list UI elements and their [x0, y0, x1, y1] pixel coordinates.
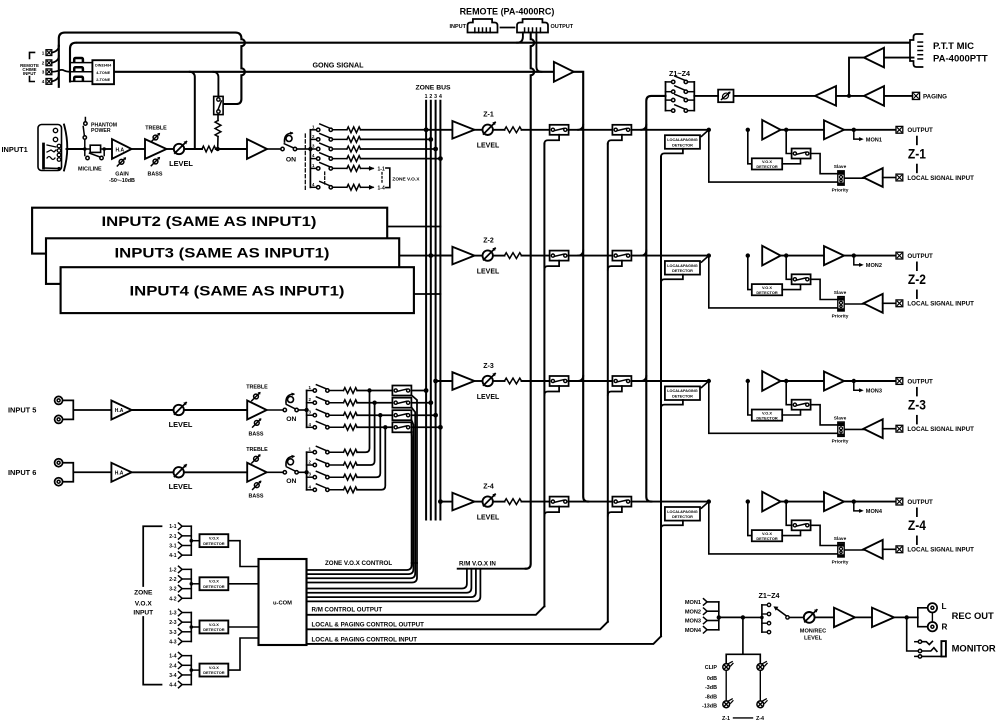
block INPUT3: [46, 238, 399, 284]
wire between jacks: [931, 613, 933, 622]
op-amp local in z2: [864, 294, 883, 313]
wire amp1 out z4: [781, 499, 824, 503]
wire swbox out z2: [811, 279, 838, 299]
op-amp monitor 1: [834, 608, 855, 627]
wire control vert col3: [660, 157, 662, 637]
svg-text:3-1: 3-1: [169, 544, 176, 550]
remote chime input bracket: [30, 52, 35, 81]
label R/M VOX IN: [459, 561, 496, 568]
wire rec out split: [918, 608, 927, 627]
detector local&paging z1: [665, 135, 700, 149]
label PHANTOM POWER: [91, 122, 117, 133]
svg-text:-3dB: -3dB: [705, 685, 717, 691]
svg-text:Z1~Z4: Z1~Z4: [759, 591, 780, 600]
svg-text:Priority: Priority: [832, 188, 849, 194]
svg-text:3: 3: [42, 70, 45, 75]
op-amp local in z1: [864, 168, 883, 187]
svg-text:MON1: MON1: [866, 137, 882, 143]
wire input2 to bus: [387, 226, 440, 228]
wire box2 ctrl z4: [608, 507, 622, 516]
wire r/m vox line: [458, 568, 526, 570]
svg-text:MON2: MON2: [685, 609, 701, 615]
svg-text:INPUT 5: INPUT 5: [8, 406, 36, 415]
label L&P CONTROL OUTPUT: [312, 621, 425, 628]
wire level to mix: [184, 148, 202, 150]
wire remote pin1: [517, 33, 523, 43]
op-amp H.A 6: [111, 463, 131, 482]
svg-text:H.A: H.A: [115, 408, 124, 414]
svg-text:LEVEL: LEVEL: [169, 420, 193, 429]
label LEVEL 6: [169, 482, 193, 491]
svg-text:4-1: 4-1: [169, 553, 176, 559]
label Priority z1: [832, 188, 849, 194]
label OUTPUT remote: [551, 24, 574, 30]
block u-COM: [259, 559, 307, 645]
svg-text:LOCAL & PAGING CONTROL INPUT: LOCAL & PAGING CONTROL INPUT: [312, 636, 418, 643]
wire l&p control input: [307, 636, 662, 644]
svg-text:DETECTOR: DETECTOR: [203, 627, 225, 632]
wire det1 out: [228, 541, 258, 567]
op-amp z2 out1: [762, 246, 780, 266]
wire remote pin2 (R/M line): [526, 33, 535, 569]
wire chime trigger bus: [58, 46, 60, 87]
wire det4 out: [228, 638, 258, 670]
wire amp1 out z3: [781, 379, 824, 383]
detector vox z1: [752, 158, 782, 169]
svg-text:R/M V.O.X IN: R/M V.O.X IN: [459, 561, 496, 568]
wire amp2-out mon: [894, 615, 918, 619]
wire local line z4: [709, 502, 838, 554]
wire ptt to amp: [884, 57, 914, 59]
wire r/m vox drop 2: [307, 569, 472, 593]
wire mon tap z2: [852, 253, 864, 266]
label LEVEL z4: [477, 514, 500, 521]
terminal output z4: [896, 498, 903, 505]
relay box1 z3: [550, 376, 569, 386]
svg-text:Slave: Slave: [834, 164, 847, 170]
svg-text:LOCAL SIGNAL INPUT: LOCAL SIGNAL INPUT: [907, 301, 974, 308]
label INPUT1: [2, 145, 28, 154]
svg-text:4-TONE: 4-TONE: [96, 71, 110, 75]
svg-text:CLIP: CLIP: [705, 665, 718, 671]
wire det2 out: [228, 583, 258, 585]
svg-text:2: 2: [429, 94, 432, 100]
wire z1-z4 clip: [734, 717, 753, 719]
led clip z4 bottom: [757, 699, 767, 708]
svg-text:Z-4: Z-4: [756, 716, 764, 722]
relay box2 z2: [612, 251, 631, 261]
switch bank Z1~Z4 paging: [666, 76, 695, 112]
pot level z4: [483, 494, 496, 507]
jack rec out L: [928, 603, 937, 612]
svg-text:LOCAL SIGNAL INPUT: LOCAL SIGNAL INPUT: [907, 547, 974, 554]
svg-text:LEVEL: LEVEL: [477, 268, 500, 275]
svg-text:P.T.T MIC: P.T.T MIC: [933, 41, 974, 52]
wire fillet page1: [578, 376, 583, 381]
selector slave/priority z1: [838, 171, 844, 185]
svg-text:BASS: BASS: [249, 431, 264, 437]
svg-text:LEVEL: LEVEL: [169, 159, 193, 168]
op-amp z4 out2: [824, 492, 844, 511]
wire chime trigger top line: [59, 33, 245, 104]
label Z-2 pot: [483, 237, 494, 244]
label P.T.T MIC: [933, 41, 988, 65]
switch row input1-1 to bus1: [310, 124, 426, 133]
label INPUT 5: [8, 406, 36, 415]
mute glyph input1: [284, 132, 293, 143]
svg-text:-50~-10dB: -50~-10dB: [109, 178, 135, 184]
node ptt/paging junction: [836, 94, 864, 98]
label GONG SIGNAL: [312, 60, 364, 69]
op-amp gong: [554, 62, 574, 82]
adjuster bass 6: [253, 481, 262, 490]
switch row input5-4: [307, 422, 393, 431]
node 6 dist: [304, 452, 308, 490]
label BASS 6: [249, 494, 264, 500]
svg-text:DETECTOR: DETECTOR: [672, 269, 693, 273]
bus line 4: [439, 101, 441, 520]
mute glyph 5: [286, 393, 295, 404]
node pad out: [85, 147, 106, 151]
svg-text:4-2: 4-2: [169, 596, 176, 602]
pot level z1: [483, 122, 496, 135]
bus line 2: [430, 101, 432, 520]
wire mon2 in: [708, 610, 719, 612]
wire gong signal line: [115, 71, 554, 73]
label MON4: [866, 509, 883, 515]
svg-text:-13dB: -13dB: [702, 704, 717, 710]
op-amp zone Z-4: [452, 493, 474, 511]
resistor z1: [505, 127, 522, 133]
wire box2 to bus2: [411, 400, 433, 405]
op-amp tone 5: [247, 401, 267, 420]
wire amp1-swbox z4: [786, 502, 791, 526]
wire pot-amp: [815, 616, 834, 618]
relay box2 z4: [612, 497, 631, 507]
label OUTPUT z1: [907, 127, 933, 134]
svg-text:3-2: 3-2: [169, 587, 176, 593]
svg-text:LOCAL&PAGING: LOCAL&PAGING: [667, 138, 698, 142]
op-amp paging 1: [864, 86, 884, 106]
switch gong: [214, 96, 223, 114]
svg-text:LEVEL: LEVEL: [477, 394, 500, 401]
wire swbox out z3: [811, 405, 838, 425]
label LOCAL SIGNAL INPUT z3: [907, 426, 974, 433]
wire terminal 3 through: [52, 70, 70, 72]
label ZONE VOX CONTROL: [325, 560, 392, 567]
label Z-1 pot: [483, 112, 494, 119]
svg-text:OUTPUT: OUTPUT: [551, 24, 574, 30]
pot level 5: [174, 402, 187, 415]
terminal chime 2: [42, 60, 52, 66]
switch row input1-2 to bus2: [310, 134, 433, 143]
wire box1-box2 z4: [569, 501, 613, 503]
connector ptt mic: [910, 34, 923, 67]
relay box1 z4: [550, 497, 569, 507]
wire local line z2: [709, 256, 838, 308]
svg-text:1-4: 1-4: [378, 185, 385, 191]
label Priority z4: [832, 559, 849, 565]
jack rca 6 top: [55, 459, 63, 467]
chime generator box: [92, 60, 114, 84]
wire box2-junction z4: [631, 501, 708, 503]
wire res-box1 z2: [522, 255, 550, 257]
label MON1 in: [685, 599, 707, 606]
label LOCAL SIGNAL INPUT z1: [907, 175, 974, 182]
svg-text:4-4: 4-4: [169, 683, 176, 689]
svg-text:Z-3: Z-3: [908, 398, 926, 413]
wire pot-res z3: [493, 380, 505, 382]
svg-text:L: L: [942, 602, 947, 611]
wire remote pin3: [536, 33, 541, 72]
svg-text:Z-2: Z-2: [908, 272, 926, 287]
wire amp1-amp2 mon: [855, 616, 872, 618]
wire amp2 out z1: [844, 129, 896, 131]
label BASS input1: [148, 172, 163, 178]
label ZONE BUS: [415, 85, 451, 92]
label LOCAL SIGNAL INPUT z2: [907, 301, 974, 308]
svg-text:ZONE: ZONE: [134, 590, 153, 597]
svg-text:PA-4000PTT: PA-4000PTT: [933, 54, 988, 65]
label Priority z3: [832, 439, 849, 445]
svg-text:OUTPUT: OUTPUT: [907, 127, 933, 134]
op-amp z4 out1: [762, 492, 780, 512]
label TREBLE 5: [246, 385, 268, 391]
terminal local signal z1: [896, 174, 903, 181]
svg-text:LOCAL SIGNAL INPUT: LOCAL SIGNAL INPUT: [907, 175, 974, 182]
detector V.O.X 2: [190, 577, 229, 590]
wire box4 to bus4: [411, 425, 442, 430]
wire l&p out z2: [661, 275, 683, 283]
label OUTPUT z3: [907, 378, 933, 385]
wire swbox out z4: [811, 525, 838, 545]
wire vox tap z4: [746, 499, 752, 535]
wire local amp-term z1: [883, 177, 896, 179]
block INPUT4: [61, 267, 414, 313]
svg-text:ZONE V.O.X CONTROL: ZONE V.O.X CONTROL: [325, 560, 392, 567]
terminal local signal z2: [896, 300, 903, 307]
relay swbox z4: [792, 520, 811, 530]
wire fillet page2: [641, 125, 646, 130]
wire selector-amp z3: [845, 428, 866, 430]
wire bus2 tap z2: [428, 253, 452, 258]
switch row input1-3 to bus3: [310, 143, 438, 152]
contact chime 1: [70, 58, 92, 63]
wire terminal 2 to bus: [52, 56, 59, 63]
svg-text:MON4: MON4: [685, 628, 702, 634]
bracket zone vox: [386, 168, 390, 188]
wire amp2 out z4: [844, 501, 896, 503]
switch row input5-2: [307, 397, 393, 406]
terminal local signal z3: [896, 425, 903, 432]
label R: [942, 623, 948, 632]
svg-text:BASS: BASS: [249, 494, 264, 500]
svg-text:1-2: 1-2: [169, 567, 176, 573]
op-amp paging 2: [815, 86, 836, 106]
wire ptt line y=42.7: [78, 42, 914, 44]
jack monitor: [915, 640, 946, 658]
op-amp z1 out1: [762, 120, 780, 140]
wire pot-res z2: [493, 255, 505, 257]
wire clip drop: [726, 617, 760, 663]
wire bus3 tap z3: [433, 379, 452, 384]
wire l&p tap z3: [702, 379, 712, 388]
wire res-box1 z1: [522, 129, 550, 131]
wire amp-pot z3: [474, 380, 482, 382]
op-amp H.A 5: [111, 401, 131, 420]
selector slave/priority z3: [838, 422, 844, 436]
connector remote input: [468, 19, 498, 33]
wire mon tap z4: [852, 499, 864, 513]
label GAIN: [109, 172, 135, 185]
svg-text:DETECTOR: DETECTOR: [203, 670, 225, 675]
wire vox det out z2: [782, 285, 800, 290]
svg-text:POWER: POWER: [91, 128, 111, 134]
wire terminal 1 to bus: [52, 46, 59, 53]
wire l&p tap z4: [702, 499, 712, 508]
wire box1 ctrl z1: [544, 135, 559, 144]
relay box1 z2: [550, 251, 569, 261]
wire res-box1 z3: [522, 380, 550, 382]
op-amp tone 6: [247, 463, 267, 482]
label MON2: [866, 263, 882, 269]
wire rca join 6: [63, 463, 111, 482]
wire r/m control output: [307, 606, 545, 615]
wire vox det out z4: [782, 531, 800, 536]
contact chime 2: [70, 67, 92, 72]
label Z-2 big: [908, 262, 926, 298]
bus line 1: [425, 101, 427, 520]
detector local&paging z2: [665, 261, 700, 275]
wire vox tap z1: [746, 128, 752, 164]
switch phantom power: [83, 118, 87, 150]
svg-text:2-4: 2-4: [169, 663, 176, 669]
selector slave/priority z4: [838, 543, 844, 557]
switch zone vox 1-4: [310, 182, 385, 192]
detector vox z4: [752, 530, 782, 541]
label Slave z1: [834, 164, 847, 170]
svg-text:Slave: Slave: [834, 536, 847, 542]
detector vox z3: [752, 410, 782, 421]
svg-text:Z-3: Z-3: [483, 363, 494, 370]
switch row input6-1 up to input5 row: [307, 388, 372, 455]
wire l&p out z3: [661, 400, 683, 408]
adjuster gain input1: [117, 157, 126, 166]
wire box2-junction z2: [631, 255, 708, 257]
svg-text:DETECTOR: DETECTOR: [756, 536, 778, 541]
svg-text:3-3: 3-3: [169, 630, 176, 636]
wire local amp-term z3: [883, 428, 896, 430]
label R/M CONTROL OUTPUT: [312, 607, 383, 614]
label LEVEL input1: [169, 159, 193, 168]
dashed link vox: [324, 172, 326, 184]
wire r/m vox drop 4: [307, 569, 481, 602]
wire pot-res z4: [493, 501, 505, 503]
label Z-4 big: [908, 508, 926, 544]
wire vox tap z3: [746, 379, 752, 415]
label Slave z3: [834, 415, 847, 421]
svg-text:Priority: Priority: [832, 313, 849, 319]
svg-text:INPUT: INPUT: [450, 24, 467, 30]
wire remote in-out: [501, 27, 515, 29]
wire gong feed down: [190, 72, 195, 149]
svg-text:ZONE BUS: ZONE BUS: [415, 85, 451, 92]
detector local&paging z4: [665, 507, 700, 521]
svg-text:LOCAL&PAGING: LOCAL&PAGING: [667, 510, 698, 514]
wire mon tap z1: [852, 128, 864, 142]
jack rca 5 top: [55, 396, 63, 404]
wire box2 ctrl z1: [608, 135, 622, 144]
label MON3: [866, 389, 882, 395]
svg-text:2: 2: [42, 61, 45, 66]
svg-text:u-COM: u-COM: [273, 601, 292, 607]
label MON/REC LEVEL: [800, 628, 826, 641]
svg-text:Z-4: Z-4: [908, 518, 926, 533]
wire vox control arc 4: [307, 563, 412, 570]
wire amp1 out z1: [781, 128, 824, 132]
wire mon3 in: [708, 620, 719, 622]
detector V.O.X 3: [190, 621, 229, 634]
terminal local signal z4: [896, 546, 903, 553]
svg-text:LOCAL&PAGING: LOCAL&PAGING: [667, 264, 698, 268]
svg-text:Priority: Priority: [832, 559, 849, 565]
svg-text:ZONE V.O.X: ZONE V.O.X: [392, 176, 420, 182]
svg-text:INPUT 6: INPUT 6: [8, 468, 36, 477]
wire box1-box2 z2: [569, 255, 613, 257]
op-amp monitor 2: [872, 608, 894, 627]
label Z1~Z4 top: [669, 69, 690, 78]
svg-text:MON4: MON4: [866, 509, 883, 515]
label -8dB: [705, 694, 717, 700]
wire led col1: [725, 671, 727, 701]
svg-text:MONITOR: MONITOR: [952, 643, 996, 654]
svg-text:Slave: Slave: [834, 290, 847, 296]
svg-text:OUTPUT: OUTPUT: [907, 378, 933, 385]
connector XLR input1: [38, 125, 67, 171]
terminal chime 4: [42, 79, 52, 85]
label MON1: [866, 137, 882, 143]
wire amp2 out z3: [844, 380, 896, 382]
relay box2 z3: [612, 376, 631, 386]
label Z-3 big: [908, 388, 926, 424]
label Slave z4: [834, 536, 847, 542]
label INPUT 6: [8, 468, 36, 477]
detector vox z2: [752, 284, 782, 295]
label Z-1 clip: [722, 716, 730, 722]
relay mute box in5/6 row1: [392, 386, 411, 396]
wire sel-pot: [743, 616, 804, 618]
pot mon/rec level: [804, 609, 818, 623]
svg-text:MON/REC: MON/REC: [800, 628, 826, 634]
svg-text:REMOTE (PA-4000RC): REMOTE (PA-4000RC): [460, 7, 555, 17]
svg-text:V.O.X: V.O.X: [135, 601, 153, 608]
wire amp1 out z2: [781, 253, 824, 257]
label MON4 in: [685, 627, 707, 634]
svg-text:ON: ON: [286, 416, 296, 423]
svg-text:MON1: MON1: [685, 600, 701, 606]
adjuster bass 5: [253, 418, 262, 427]
svg-text:Priority: Priority: [832, 439, 849, 445]
svg-text:1: 1: [42, 50, 45, 55]
svg-text:LEVEL: LEVEL: [477, 143, 500, 150]
svg-text:LOCAL&PAGING: LOCAL&PAGING: [667, 389, 698, 393]
wire box1-box2 z3: [569, 380, 613, 382]
wire box1-box2 z1: [569, 129, 613, 131]
wire xlr out: [67, 147, 87, 151]
wire vox control arc 1: [307, 563, 418, 583]
detector V.O.X 4: [190, 664, 229, 677]
op-amp H.A input1: [112, 139, 132, 159]
